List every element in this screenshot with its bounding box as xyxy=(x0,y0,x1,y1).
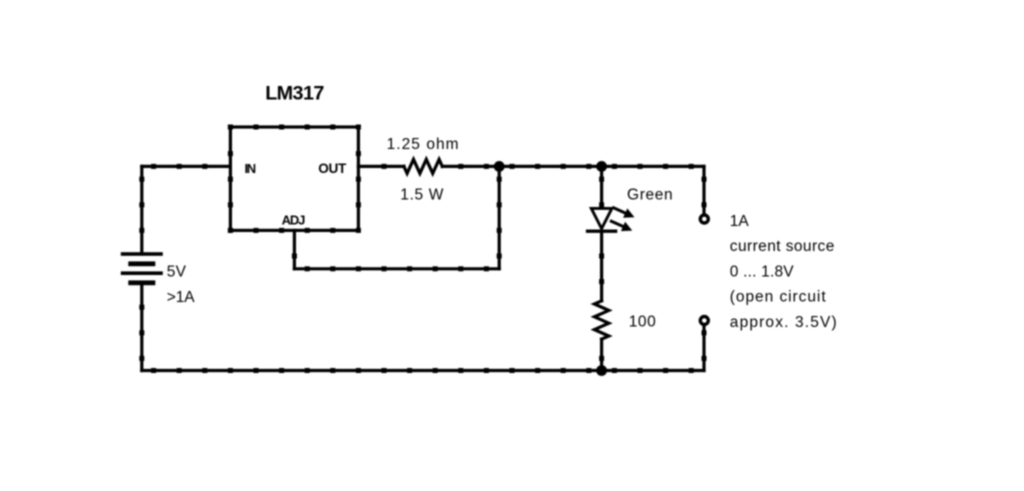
pin label IN xyxy=(245,161,256,176)
value label 5V xyxy=(167,264,187,281)
note line approx. 3.5V) xyxy=(730,314,838,331)
svg-text:(open circuit: (open circuit xyxy=(730,289,827,306)
node C junction dot xyxy=(596,365,607,376)
value label >1A xyxy=(167,289,195,306)
label Green xyxy=(627,187,673,204)
svg-text:ADJ: ADJ xyxy=(282,213,306,228)
LED D1 Green xyxy=(588,208,635,231)
svg-text:current source: current source xyxy=(730,238,835,255)
op-amp/regulator U1 LM317 body xyxy=(228,125,361,233)
svg-text:approx. 3.5V): approx. 3.5V) xyxy=(730,314,838,331)
terminal plus (output) xyxy=(700,215,708,223)
wire R1 to node A xyxy=(442,164,499,169)
svg-text:100: 100 xyxy=(629,313,657,330)
wire LED cathode to R2 xyxy=(599,231,604,301)
svg-text:1A: 1A xyxy=(730,213,750,230)
note line current source xyxy=(730,238,835,255)
wire node B to LED anode xyxy=(599,166,604,208)
value label 1.25 ohm xyxy=(387,136,460,153)
svg-text:LM317: LM317 xyxy=(265,82,324,104)
wire battery+ to IN pin xyxy=(139,164,230,254)
svg-text:IN: IN xyxy=(245,161,256,176)
svg-text:Green: Green xyxy=(627,187,673,204)
label LM317 xyxy=(265,82,324,104)
wire node A to node B xyxy=(499,164,601,169)
wire R2 to node C xyxy=(599,339,604,370)
svg-text:1.5 W: 1.5 W xyxy=(400,187,444,204)
svg-text:>1A: >1A xyxy=(167,289,195,306)
value label 1.5 W xyxy=(400,187,444,204)
svg-text:0 ... 1.8V: 0 ... 1.8V xyxy=(730,263,794,280)
wire battery- down to bottom rail xyxy=(139,283,144,371)
note line 1A xyxy=(730,213,750,230)
note line 0 ... 1.8V xyxy=(730,263,794,280)
pin label OUT xyxy=(318,161,347,176)
note line (open circuit xyxy=(730,289,827,306)
wire OUT pin to R1 xyxy=(358,164,404,169)
resistor R2 100 xyxy=(594,301,608,339)
wire ADJ feedback (ADJ pin to node A) xyxy=(292,166,502,271)
pin label ADJ xyxy=(282,213,306,228)
svg-text:1.25 ohm: 1.25 ohm xyxy=(387,136,460,153)
resistor R1 1.25 ohm xyxy=(404,159,442,173)
wire bottom rail (battery- to node C) xyxy=(142,368,602,373)
terminal minus (output) xyxy=(700,317,708,325)
value label 100 xyxy=(629,313,657,330)
wire node B to plus terminal xyxy=(602,164,707,214)
wire node C to minus terminal xyxy=(602,326,707,373)
node B junction dot xyxy=(596,161,607,172)
node A junction dot xyxy=(494,161,505,172)
svg-text:OUT: OUT xyxy=(318,161,347,176)
svg-text:5V: 5V xyxy=(167,264,187,281)
battery B1 5V xyxy=(121,252,163,285)
